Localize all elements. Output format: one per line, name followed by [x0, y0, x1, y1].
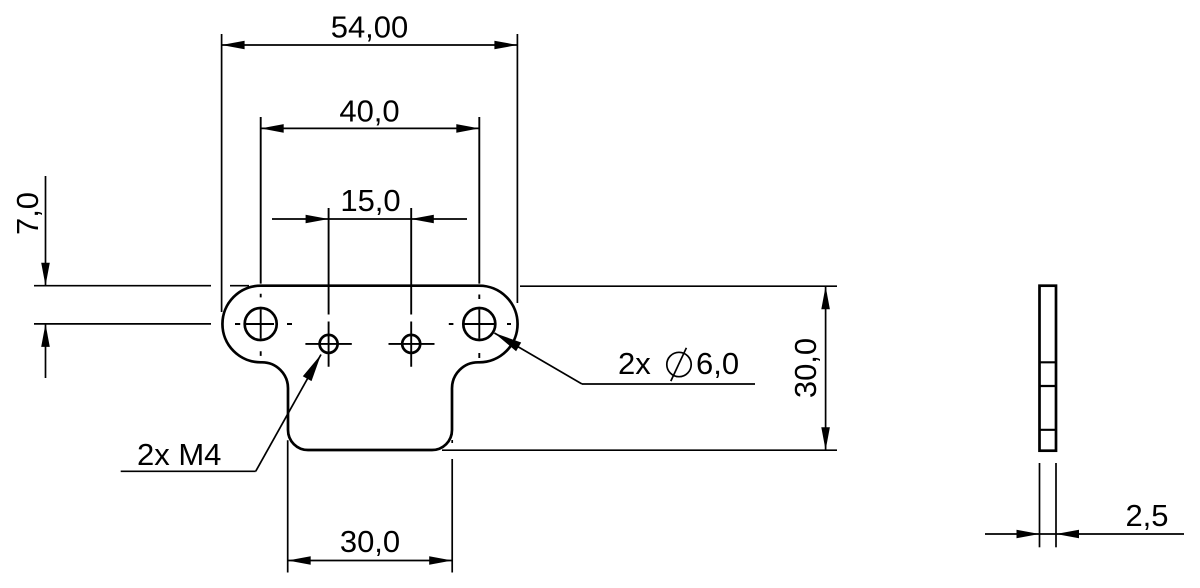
bracket outline (front view) — [222, 286, 517, 450]
dimension 7,0 left — [34, 176, 249, 378]
svg-text:15,0: 15,0 — [340, 183, 400, 218]
dimension 40,0 — [261, 127, 480, 129]
big hole right: horizontal — [449, 323, 511, 325]
dimension 54,00 — [222, 34, 518, 312]
svg-text:2x: 2x — [618, 346, 651, 381]
hole D6 left — [245, 308, 277, 340]
dimension 30,0 right — [442, 286, 837, 450]
hole M4 left — [320, 335, 338, 353]
svg-text:2,5: 2,5 — [1125, 498, 1168, 533]
small hole left: vertical (also 15,0 extension) — [328, 208, 330, 367]
svg-text:7,0: 7,0 — [10, 192, 45, 235]
dimension 15,0 — [272, 218, 467, 220]
hole D6 right — [463, 308, 495, 340]
svg-text:2x M4: 2x M4 — [137, 437, 221, 472]
big hole left: vertical (also 40,0 extension) — [260, 117, 262, 356]
small hole right: horizontal — [389, 343, 435, 345]
hole M4 right — [402, 335, 420, 353]
small hole left: horizontal — [305, 343, 351, 345]
big hole right: vertical (also 40,0 extension) — [478, 117, 480, 358]
svg-text:54,00: 54,00 — [331, 10, 409, 45]
dimension 30,0 bottom — [288, 440, 453, 573]
dimension 2,5 — [985, 463, 1184, 547]
diameter symbol — [667, 348, 691, 381]
center lines — [235, 117, 511, 367]
svg-text:30,0: 30,0 — [340, 524, 400, 559]
big hole left: horizontal — [235, 323, 292, 325]
svg-text:30,0: 30,0 — [788, 338, 823, 398]
svg-text:40,0: 40,0 — [339, 94, 399, 129]
side view plate — [1040, 286, 1057, 451]
svg-text:6,0: 6,0 — [696, 346, 739, 381]
small hole right: vertical (also 15,0 extension) — [410, 208, 412, 367]
